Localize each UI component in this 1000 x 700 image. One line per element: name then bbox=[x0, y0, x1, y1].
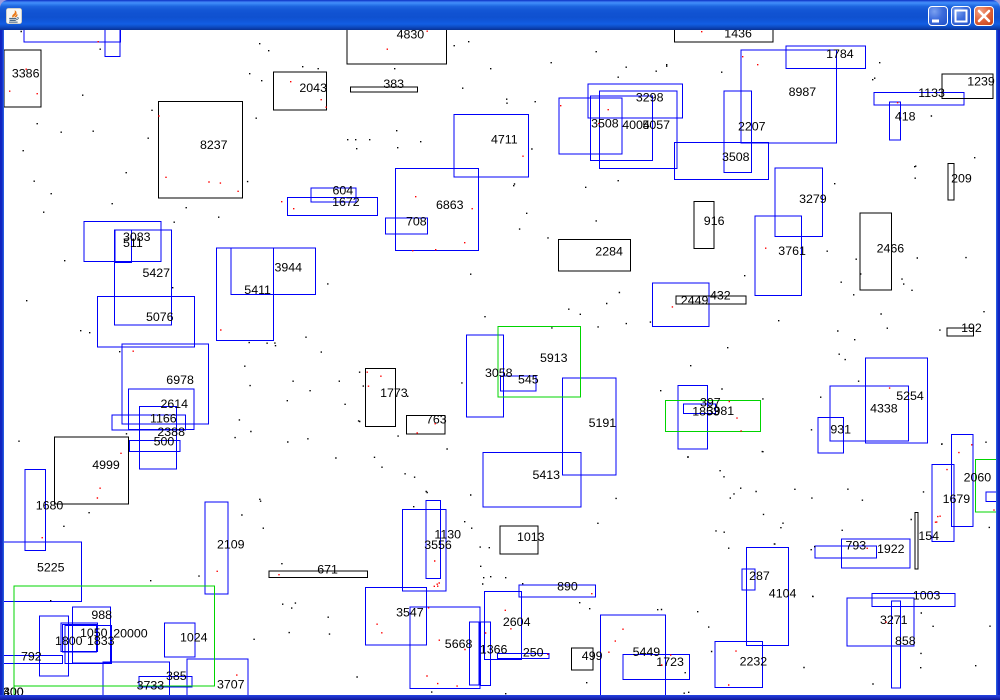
svg-text:5254: 5254 bbox=[896, 389, 924, 403]
rect 3298 bbox=[588, 84, 682, 118]
svg-text:4999: 4999 bbox=[92, 458, 120, 472]
rect 4104 bbox=[747, 548, 789, 646]
svg-text:1800: 1800 bbox=[55, 634, 83, 648]
minimize button bbox=[928, 6, 948, 26]
svg-text:2604: 2604 bbox=[503, 615, 531, 629]
svg-text:1003: 1003 bbox=[913, 588, 941, 602]
rect 385 bbox=[139, 677, 192, 687]
rect 1679 bbox=[932, 464, 954, 541]
rect 1130 bbox=[426, 500, 440, 578]
svg-text:1773: 1773 bbox=[380, 386, 408, 400]
rect 1366 bbox=[481, 622, 491, 686]
rect topB bbox=[105, 20, 120, 57]
svg-text:3508: 3508 bbox=[722, 150, 750, 164]
rect 2614 bbox=[129, 389, 195, 429]
svg-text:1050: 1050 bbox=[80, 626, 108, 640]
rect 3508a bbox=[559, 98, 622, 154]
svg-text:792: 792 bbox=[21, 649, 42, 663]
rect 3279 bbox=[775, 168, 823, 237]
svg-text:5668: 5668 bbox=[445, 637, 473, 651]
svg-text:5913: 5913 bbox=[540, 351, 568, 365]
svg-text:6978: 6978 bbox=[166, 373, 194, 387]
rect 858 bbox=[892, 601, 901, 688]
rect 5413 bbox=[483, 452, 581, 507]
rect 287 bbox=[742, 569, 755, 590]
green rect left-edge extension bbox=[13, 686, 15, 695]
rect 671 bbox=[269, 571, 368, 577]
rect 500 bbox=[130, 440, 180, 451]
svg-text:3058: 3058 bbox=[485, 366, 513, 380]
rect 916 bbox=[694, 201, 714, 248]
rect 3707 bbox=[187, 659, 248, 700]
svg-text:5225: 5225 bbox=[37, 561, 65, 575]
svg-text:511: 511 bbox=[123, 236, 143, 250]
rect 988 bbox=[73, 607, 111, 663]
svg-text:5427: 5427 bbox=[143, 266, 171, 280]
rect 5427 bbox=[115, 230, 172, 325]
rect 604 bbox=[311, 188, 356, 202]
svg-text:6863: 6863 bbox=[436, 198, 464, 212]
rect 5057 bbox=[600, 91, 677, 169]
rect 5668 bbox=[410, 607, 480, 689]
svg-text:154: 154 bbox=[918, 529, 939, 543]
svg-text:432: 432 bbox=[710, 289, 731, 303]
svg-text:500: 500 bbox=[154, 435, 175, 449]
rect g2 bbox=[665, 401, 760, 432]
rect 1672 bbox=[288, 198, 378, 216]
svg-text:3508: 3508 bbox=[591, 117, 619, 131]
rect 3761 bbox=[755, 216, 802, 296]
rect 1239 bbox=[942, 74, 993, 98]
svg-text:1680: 1680 bbox=[36, 498, 64, 512]
svg-text:1366: 1366 bbox=[480, 643, 508, 657]
svg-text:1672: 1672 bbox=[332, 195, 360, 209]
rect 1436 bbox=[674, 25, 773, 42]
rect 2604 bbox=[485, 592, 522, 660]
svg-text:4711: 4711 bbox=[491, 133, 518, 147]
svg-text:763: 763 bbox=[426, 413, 447, 427]
rect 4338 bbox=[830, 386, 909, 441]
svg-text:1024: 1024 bbox=[180, 630, 208, 644]
rect 2060 bbox=[952, 434, 974, 526]
svg-text:858: 858 bbox=[895, 634, 916, 648]
svg-text:4830: 4830 bbox=[397, 30, 425, 42]
rect 2207 bbox=[724, 91, 752, 173]
rect 2449 bbox=[653, 283, 709, 326]
rect 890 bbox=[519, 585, 596, 597]
rect 5411 bbox=[216, 248, 273, 340]
rect 4004 bbox=[590, 96, 652, 160]
rect 418 bbox=[889, 102, 900, 140]
svg-text:3547: 3547 bbox=[396, 605, 424, 619]
rect 1833 bbox=[62, 625, 96, 652]
svg-text:1013: 1013 bbox=[517, 530, 545, 544]
svg-text:2232: 2232 bbox=[740, 655, 768, 669]
rect 8987 bbox=[741, 50, 836, 143]
rect 793 bbox=[815, 546, 877, 558]
java coffee icon bbox=[6, 8, 22, 24]
rect 708 bbox=[385, 218, 427, 234]
rect topA bbox=[24, 22, 120, 42]
rect 2466 bbox=[860, 213, 892, 290]
rect 1922 bbox=[842, 539, 910, 568]
rect smallR bbox=[986, 492, 1000, 502]
svg-text:2043: 2043 bbox=[299, 81, 327, 95]
rect 4711 bbox=[454, 114, 528, 177]
svg-text:287: 287 bbox=[749, 569, 770, 583]
rect 3271 bbox=[847, 598, 914, 646]
rect 1784 bbox=[786, 46, 865, 69]
rect g3 bbox=[14, 586, 215, 686]
left border bbox=[0, 30, 4, 695]
svg-text:3944: 3944 bbox=[275, 260, 303, 274]
rect 192 bbox=[947, 328, 973, 336]
rect 1024 bbox=[165, 623, 195, 657]
svg-text:931: 931 bbox=[830, 423, 851, 437]
rect 1800 bbox=[61, 623, 97, 651]
svg-text:5413: 5413 bbox=[533, 468, 561, 482]
svg-text:2284: 2284 bbox=[595, 245, 623, 259]
rect 792 bbox=[0, 655, 62, 663]
svg-text:3707: 3707 bbox=[217, 678, 245, 692]
rect 209 bbox=[948, 164, 954, 201]
rect 1680 bbox=[25, 470, 46, 551]
rect 1723 bbox=[623, 654, 689, 679]
svg-text:5411: 5411 bbox=[244, 283, 271, 297]
rect 2043 bbox=[273, 72, 326, 110]
title bar bbox=[0, 0, 1000, 30]
svg-text:708: 708 bbox=[406, 215, 427, 229]
svg-text:3556: 3556 bbox=[424, 538, 452, 552]
svg-text:1679: 1679 bbox=[943, 492, 971, 506]
rect 5449 bbox=[600, 615, 665, 700]
svg-text:1166: 1166 bbox=[150, 411, 177, 425]
rect 2232 bbox=[715, 641, 763, 687]
rect 4830 bbox=[347, 25, 446, 64]
svg-text:793: 793 bbox=[846, 539, 867, 553]
svg-text:671: 671 bbox=[317, 563, 338, 577]
rect narrowA bbox=[469, 622, 479, 685]
svg-text:890: 890 bbox=[557, 580, 578, 594]
rect 2109 bbox=[205, 502, 228, 594]
svg-text:3761: 3761 bbox=[778, 244, 806, 258]
svg-text:2207: 2207 bbox=[738, 120, 766, 134]
svg-text:209: 209 bbox=[951, 172, 972, 186]
rect 3508b bbox=[674, 143, 768, 180]
rect 8237 bbox=[159, 101, 243, 198]
svg-text:988: 988 bbox=[91, 608, 112, 622]
rect 1853 bbox=[683, 404, 715, 413]
svg-text:499: 499 bbox=[582, 649, 603, 663]
svg-text:2449: 2449 bbox=[681, 294, 709, 308]
svg-text:1922: 1922 bbox=[877, 542, 905, 556]
svg-text:2466: 2466 bbox=[877, 242, 905, 256]
rect 250 bbox=[497, 654, 549, 659]
svg-text:2614: 2614 bbox=[161, 397, 189, 411]
rect 3556 bbox=[402, 509, 446, 591]
svg-text:1784: 1784 bbox=[826, 47, 854, 61]
svg-text:545: 545 bbox=[518, 373, 539, 387]
rect 154 bbox=[915, 512, 918, 568]
svg-text:2109: 2109 bbox=[217, 537, 245, 551]
rect 3386 bbox=[4, 50, 41, 107]
svg-text:418: 418 bbox=[895, 110, 916, 124]
rect 6863 bbox=[395, 168, 478, 250]
rect 499 bbox=[572, 648, 593, 670]
rect 383 bbox=[350, 87, 417, 92]
rect 5191 bbox=[563, 378, 616, 475]
rect btall bbox=[40, 616, 69, 676]
svg-text:2060: 2060 bbox=[964, 471, 992, 485]
rect 931 bbox=[818, 417, 843, 453]
rect 397 bbox=[678, 386, 707, 450]
bottom border bbox=[0, 695, 1000, 700]
svg-text:3271: 3271 bbox=[880, 613, 908, 627]
rect 511 bbox=[115, 230, 132, 263]
svg-text:1723: 1723 bbox=[656, 655, 684, 669]
svg-text:5076: 5076 bbox=[146, 310, 174, 324]
svg-text:3733: 3733 bbox=[137, 678, 165, 692]
svg-text:192: 192 bbox=[961, 321, 982, 335]
rect 1166 bbox=[112, 415, 185, 430]
rect 5254 bbox=[865, 358, 927, 443]
rect 432 bbox=[676, 296, 746, 304]
svg-text:5191: 5191 bbox=[589, 416, 617, 430]
rect 3083 bbox=[84, 222, 161, 262]
rect 1003 bbox=[872, 594, 955, 607]
rect 3547 bbox=[365, 588, 426, 645]
rect 1133 bbox=[874, 93, 964, 106]
svg-text:250: 250 bbox=[523, 645, 544, 659]
svg-text:3279: 3279 bbox=[799, 192, 827, 206]
maximize button bbox=[951, 6, 971, 26]
svg-text:4104: 4104 bbox=[769, 586, 797, 600]
rect 3058 bbox=[466, 335, 503, 417]
rect 1050 bbox=[65, 625, 112, 663]
svg-text:3298: 3298 bbox=[636, 90, 664, 104]
rect 545 bbox=[500, 376, 536, 391]
rect 1773 bbox=[365, 368, 395, 426]
rect 4999 bbox=[55, 437, 129, 504]
svg-text:1133: 1133 bbox=[918, 86, 945, 100]
rect 3944 bbox=[231, 248, 316, 294]
rect 1013 bbox=[500, 526, 538, 554]
svg-text:5057: 5057 bbox=[643, 118, 671, 132]
svg-text:4338: 4338 bbox=[870, 402, 898, 416]
svg-text:20000: 20000 bbox=[113, 627, 148, 641]
rect 3733 bbox=[103, 662, 169, 700]
svg-text:3981: 3981 bbox=[707, 404, 735, 418]
rect g5913 bbox=[498, 327, 581, 398]
svg-text:8237: 8237 bbox=[200, 138, 228, 152]
rect g4 bbox=[976, 459, 1000, 512]
rect 5225 bbox=[0, 542, 82, 602]
right border bbox=[996, 30, 1000, 695]
svg-text:385: 385 bbox=[166, 669, 187, 683]
rect 2388 bbox=[139, 407, 176, 469]
rect 5076 bbox=[97, 297, 194, 348]
svg-text:1239: 1239 bbox=[967, 74, 995, 88]
svg-text:1436: 1436 bbox=[724, 30, 752, 40]
svg-text:916: 916 bbox=[704, 214, 725, 228]
svg-text:8987: 8987 bbox=[789, 85, 817, 99]
close button bbox=[974, 6, 994, 26]
rect 2284 bbox=[558, 239, 630, 270]
rect 763 bbox=[407, 416, 445, 434]
svg-text:383: 383 bbox=[383, 77, 404, 91]
rect 6978 bbox=[122, 344, 209, 424]
